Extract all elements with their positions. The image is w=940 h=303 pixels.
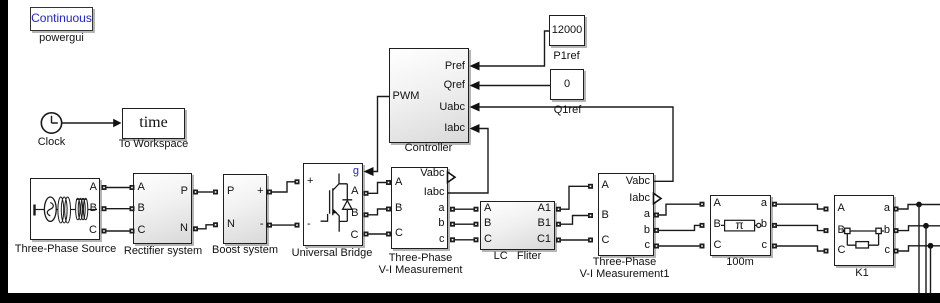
wire measurement1 Vabc to controller Uabc <box>479 107 673 181</box>
LC port C1 <box>537 234 551 245</box>
wire K1 c to bus <box>899 246 940 251</box>
Clock label <box>38 137 66 148</box>
wire measurement1 b to 100m B <box>659 225 700 230</box>
Q1ref constant block <box>550 69 584 100</box>
rectifier port N <box>180 223 188 234</box>
K1 port B <box>838 225 845 236</box>
wire P1ref to controller Pref <box>479 31 549 66</box>
100m port a <box>761 198 767 209</box>
measurement port Vabc <box>420 168 444 179</box>
bus line c down <box>930 246 932 294</box>
wire bridge B to measurement B <box>369 209 387 215</box>
measurement1 Iabc unconnected port arrow <box>654 193 662 203</box>
K1 port c <box>885 245 891 256</box>
boost port P <box>227 186 234 197</box>
left border bar <box>0 0 8 303</box>
P1ref constant block <box>549 15 585 46</box>
wire measurement c to LC C <box>455 239 474 241</box>
bridge port B <box>351 208 358 219</box>
controller port Uabc <box>439 102 465 113</box>
Universal Bridge block <box>303 163 363 246</box>
wire rectifier N to boost N <box>198 225 213 229</box>
measurement1 port Vabc <box>626 176 650 187</box>
100m pi label <box>735 220 743 231</box>
Three-Phase V-I Measurement1 block <box>598 173 654 256</box>
wire Q1ref to controller Qref <box>479 85 550 87</box>
Controller block <box>389 48 469 143</box>
measurement1 port C <box>602 235 610 246</box>
K1 port b <box>884 225 890 236</box>
wire measurement1 a to 100m A <box>659 204 700 215</box>
measurement1 port b <box>644 225 650 236</box>
bus line a down <box>918 205 920 295</box>
wire LC A1 to measurement1 A <box>561 186 588 209</box>
wire boost - to bridge - <box>272 224 295 226</box>
controller port Pref <box>445 61 465 72</box>
100m pi-section icon <box>721 224 756 226</box>
wire Clock to To Workspace <box>62 122 114 124</box>
measurement1 port Iabc <box>629 193 650 204</box>
wire LC C1 to measurement1 C <box>561 239 588 241</box>
100m port c <box>762 240 768 251</box>
K1 port A <box>838 203 845 214</box>
three-phase source icon <box>33 205 35 216</box>
measurement port Iabc <box>424 187 445 198</box>
measurement port a <box>438 203 444 214</box>
wire LC B1 to measurement1 B <box>561 216 588 225</box>
K1 port C <box>838 245 846 256</box>
measurement Vabc unconnected port arrow <box>448 172 456 182</box>
rectifier port B <box>138 203 145 214</box>
rectifier port P <box>181 186 188 197</box>
measurement1 port A <box>602 180 609 191</box>
To Workspace block (time) <box>122 108 185 139</box>
wire controller PWM to bridge g <box>373 97 390 172</box>
Boost system block <box>223 174 267 244</box>
measurement port b <box>438 218 444 229</box>
wire measurement Iabc to controller Iabc <box>448 129 489 194</box>
Three-Phase V-I Measurement block <box>391 167 448 249</box>
wire bridge A to measurement A <box>369 183 387 194</box>
wire measurement b to LC B <box>455 223 474 225</box>
wire source A to rectifier A <box>107 187 130 189</box>
rectifier port A <box>138 182 145 193</box>
bridge port A <box>351 186 358 197</box>
bottom border bar <box>0 293 940 303</box>
measurement port c <box>439 234 445 245</box>
measurement1 port c <box>645 240 651 251</box>
source port C <box>89 225 97 236</box>
wire source B to rectifier B <box>107 208 130 210</box>
measurement port B <box>395 203 402 214</box>
wire 100m a to K1 A <box>777 204 824 209</box>
bridge port - <box>307 219 311 230</box>
measurement1 port a <box>644 209 650 220</box>
junction dot a <box>916 202 922 208</box>
LC port B1 <box>538 218 551 229</box>
LC port B <box>484 218 491 229</box>
universal bridge IGBT-diode icon <box>321 174 353 232</box>
wire measurement a to LC A <box>455 208 474 210</box>
bridge port g <box>353 166 359 177</box>
measurement port A <box>395 177 402 188</box>
measurement1 port B <box>602 210 609 221</box>
LC Fliter block <box>480 201 555 250</box>
100m port b <box>761 219 767 230</box>
wire measurement1 c to 100m C <box>659 245 700 247</box>
source port B <box>90 203 97 214</box>
clock icon <box>41 113 61 133</box>
boost port N <box>227 219 235 230</box>
K1 port a <box>884 203 890 214</box>
wire source C to rectifier C <box>107 230 130 232</box>
controller port PWM <box>393 91 420 102</box>
K1 block <box>834 195 894 266</box>
powergui block <box>30 7 93 31</box>
junction dot b <box>923 223 929 229</box>
100m port C <box>714 240 722 251</box>
wire 100m c to K1 C <box>777 246 824 251</box>
K1 breaker icon <box>842 231 885 245</box>
bus line b down <box>925 226 927 294</box>
source port A <box>90 182 97 193</box>
controller port Iabc <box>444 123 465 134</box>
wire bridge C to measurement C <box>369 233 387 235</box>
wire K1 b to bus <box>899 226 940 231</box>
Rectifier system block <box>133 173 192 244</box>
100m port A <box>714 198 721 209</box>
controller port Qref <box>444 80 465 91</box>
Three-Phase Source block <box>30 178 100 240</box>
wire rectifier P to boost P <box>198 191 213 193</box>
junction dot c <box>928 243 934 249</box>
wire boost + to bridge + <box>272 182 295 192</box>
bridge port C <box>351 230 359 241</box>
100m port B <box>714 219 721 230</box>
boost port + <box>257 186 263 197</box>
100m block <box>710 195 771 256</box>
bridge port + <box>307 176 313 187</box>
LC port A <box>484 203 491 214</box>
wire 100m b to K1 B <box>777 225 824 230</box>
rectifier port C <box>138 225 146 236</box>
measurement port C <box>395 228 403 239</box>
LC port C <box>484 234 492 245</box>
wire K1 a to bus <box>899 205 940 210</box>
boost port - <box>260 219 264 230</box>
LC port A1 <box>538 203 551 214</box>
